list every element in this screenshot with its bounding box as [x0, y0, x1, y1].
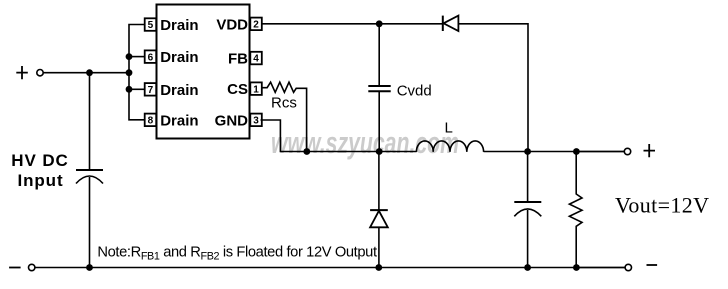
pin 1 box — [250, 82, 261, 95]
node bottom input-cap junction — [86, 264, 93, 271]
pin 5 box — [145, 18, 157, 31]
svg-text:1: 1 — [253, 84, 259, 95]
node input cap junction — [86, 69, 93, 76]
wire diode to corner — [458, 24, 528, 152]
svg-text:Rcs: Rcs — [271, 95, 297, 112]
wire VDD top rail — [262, 23, 443, 25]
node bottom out-cap junction — [524, 264, 531, 271]
wire cap branch upper — [89, 73, 91, 170]
svg-text:8: 8 — [148, 116, 154, 127]
node cvdd-rail junction — [376, 148, 383, 155]
svg-text:7: 7 — [148, 85, 154, 96]
capacitor Cvdd — [368, 86, 390, 91]
wire cvdd upper — [378, 24, 380, 86]
svg-text:2: 2 — [253, 20, 259, 31]
wire rail to + terminal — [576, 151, 624, 153]
terminal - output — [625, 264, 631, 270]
diode D2 bottom — [370, 152, 388, 268]
node bus-pin7 junction — [126, 86, 133, 93]
wire pin7 stub — [129, 88, 145, 90]
pin 7 box — [145, 83, 157, 96]
wire bottom to - terminal — [576, 267, 625, 269]
diode D1 top — [443, 16, 459, 31]
svg-text:www.szyucan.com: www.szyucan.com — [271, 125, 459, 160]
node bus-input junction — [126, 69, 133, 76]
pin 3 box — [250, 114, 261, 127]
node rail-resistor junction — [573, 148, 580, 155]
capacitor C-in — [76, 170, 103, 184]
svg-text:6: 6 — [148, 52, 154, 63]
svg-text:CS: CS — [227, 81, 248, 98]
svg-text:GND: GND — [215, 112, 249, 129]
node rail-outcap junction — [524, 148, 531, 155]
left bus wire — [129, 25, 145, 120]
wire bottom rail — [35, 267, 625, 269]
node bottom diode junction — [375, 264, 382, 271]
terminal - input — [29, 264, 35, 270]
wire GND pin3 — [261, 120, 417, 152]
wire rail right of inductor — [484, 151, 625, 153]
pin 4 box — [250, 52, 261, 65]
svg-text:Input: Input — [17, 171, 63, 190]
IC U1 body — [157, 5, 250, 139]
terminal + output — [624, 148, 630, 154]
svg-text:Drain: Drain — [160, 17, 198, 34]
svg-text:Vout=12V: Vout=12V — [615, 193, 709, 218]
wire pin6 stub — [129, 56, 145, 58]
pin 2 box — [250, 18, 261, 31]
node rcs-rail junction — [303, 148, 310, 155]
svg-text:Drain: Drain — [160, 112, 198, 129]
resistor Rcs — [262, 82, 307, 151]
minus sign output — [647, 264, 658, 266]
wire cvdd lower — [378, 91, 380, 151]
svg-text:FB: FB — [228, 51, 248, 68]
svg-text:3: 3 — [253, 116, 259, 127]
capacitor C-out — [514, 152, 541, 268]
svg-text:4: 4 — [253, 54, 259, 65]
svg-text:L: L — [445, 120, 453, 137]
node bottom resistor junction — [573, 264, 580, 271]
svg-text:Note:RFB1 and RFB2 is Floated: Note:RFB1 and RFB2 is Floated for 12V Ou… — [97, 245, 377, 263]
svg-text:Cvdd: Cvdd — [397, 83, 432, 100]
pin 8 box — [145, 114, 157, 127]
resistor R-load — [569, 152, 582, 268]
node bus-pin6 junction — [126, 53, 133, 60]
svg-text:VDD: VDD — [216, 16, 248, 33]
plus sign output — [644, 144, 656, 157]
wire input top — [43, 72, 129, 74]
terminal + input — [37, 70, 43, 76]
wire cap branch lower — [89, 177, 91, 268]
svg-text:Drain: Drain — [160, 82, 198, 99]
svg-text:Drain: Drain — [160, 49, 198, 66]
inductor L — [416, 141, 483, 152]
node vdd-cvdd junction — [376, 20, 383, 27]
svg-text:HV DC: HV DC — [11, 151, 68, 170]
pin 6 box — [145, 50, 157, 63]
plus sign input — [16, 66, 28, 79]
svg-text:5: 5 — [148, 20, 154, 31]
minus sign input — [9, 267, 21, 269]
